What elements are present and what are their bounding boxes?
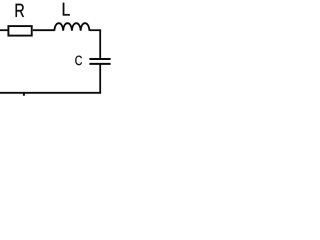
wire bottom bbox=[0, 92, 101, 94]
resistor R bbox=[8, 26, 31, 35]
label R bbox=[16, 4, 24, 17]
wire inductor-to-corner bbox=[89, 29, 101, 31]
wire resistor-to-inductor bbox=[33, 29, 55, 31]
capacitor C top plate bbox=[89, 58, 110, 60]
label L bbox=[63, 3, 70, 16]
wire right vertical upper bbox=[99, 30, 101, 59]
inductor L bbox=[54, 23, 89, 31]
wire top-left bbox=[0, 29, 9, 31]
node stub below bottom wire bbox=[23, 94, 25, 96]
wire right vertical lower bbox=[99, 64, 101, 93]
capacitor C bottom plate bbox=[89, 63, 110, 65]
label C bbox=[75, 56, 82, 66]
